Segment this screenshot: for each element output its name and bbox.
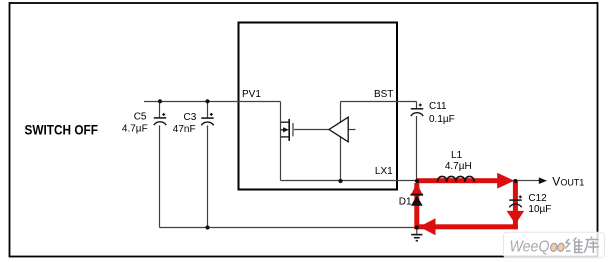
- wire gate lead: [294, 129, 330, 131]
- transistor Q1 MOSFET: [281, 119, 289, 141]
- current path arrow down through C12: [507, 181, 525, 230]
- wire driver bottom riser to LX1: [340, 137, 342, 181]
- svg-text:D1: D1: [399, 197, 412, 208]
- node C3 ground junction: [205, 225, 209, 229]
- svg-text:WeeQ: WeeQ: [510, 238, 550, 255]
- IC U1 box: [239, 23, 398, 190]
- current path arrow left along ground return: [417, 218, 518, 235]
- wire driver top riser to BST: [340, 102, 342, 123]
- capacitor C12: [509, 195, 522, 207]
- wire LX1 rail: [281, 180, 516, 182]
- svg-text:SWITCH OFF: SWITCH OFF: [25, 121, 99, 137]
- svg-text:10µF: 10µF: [528, 204, 551, 215]
- svg-text:BST: BST: [374, 89, 393, 100]
- capacitor C11: [411, 104, 423, 117]
- wire ground rail: [160, 227, 417, 229]
- op-amp U1 gate driver triangle: [329, 117, 348, 142]
- node VOUT1 junction: [513, 179, 517, 183]
- wire C11 top lead: [416, 102, 418, 109]
- diode D1: [411, 195, 424, 206]
- svg-text:0.1µF: 0.1µF: [429, 114, 455, 125]
- svg-text:C3: C3: [184, 112, 197, 123]
- ground: [411, 235, 422, 241]
- svg-text:4.7µF: 4.7µF: [122, 124, 148, 135]
- wire D1 leads: [416, 181, 418, 228]
- node C junction driver-LX1: [338, 179, 342, 183]
- svg-text:VOUT1: VOUT1: [552, 174, 584, 188]
- current path arrow up through D1: [411, 183, 424, 230]
- wire C5 bottom lead to ground rail: [159, 125, 161, 227]
- svg-text:4.7µH: 4.7µH: [445, 161, 472, 172]
- wire VOUT1 output with arrow: [516, 180, 540, 182]
- wire C5 top lead: [159, 102, 161, 118]
- node A junction PV1-C5: [158, 99, 162, 103]
- svg-text:C11: C11: [429, 101, 447, 112]
- current path arrow right along L1: [417, 173, 515, 189]
- node B junction PV1-C3: [205, 99, 209, 103]
- node ground junction: [415, 225, 419, 229]
- wire C12 leads: [515, 181, 517, 228]
- capacitor C5: [154, 113, 166, 125]
- wire BST rail: [341, 101, 417, 103]
- svg-text:47nF: 47nF: [173, 124, 196, 135]
- wire ground stem: [416, 228, 418, 234]
- svg-text:C12: C12: [528, 193, 547, 204]
- wire driver input stub: [348, 129, 356, 131]
- capacitor C3: [201, 113, 213, 125]
- svg-text:C5: C5: [134, 112, 147, 123]
- inductor L1: [438, 176, 474, 181]
- transistor Q1 gate bar: [292, 123, 294, 136]
- node LX1-D1-C11 junction: [415, 179, 419, 183]
- svg-text:LX1: LX1: [375, 166, 393, 177]
- wire C3 top lead: [207, 102, 209, 118]
- wire C3 bottom lead: [207, 125, 209, 227]
- svg-text:L1: L1: [451, 150, 463, 161]
- wire MOSFET drain-source vertical: [280, 102, 282, 181]
- wire C11 bottom lead to LX1: [416, 116, 418, 181]
- watermark: [504, 232, 605, 257]
- wire PV1 input rail: [144, 101, 281, 103]
- svg-text:PV1: PV1: [242, 89, 261, 100]
